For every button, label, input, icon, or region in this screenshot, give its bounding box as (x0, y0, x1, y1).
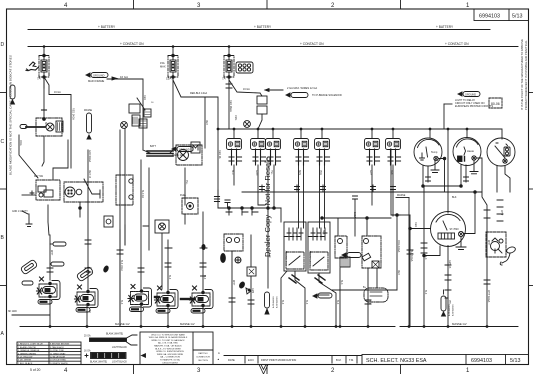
wires below switches (281, 271, 336, 327)
title box top right (474, 9, 529, 21)
svg-text:14 WHITE WHITE: 14 WHITE WHITE (50, 363, 68, 365)
sensor box (104, 216, 113, 227)
gauge G1 temp (414, 129, 446, 192)
svg-text:TAN: TAN (390, 170, 393, 175)
svg-text:TO P-BRAKE SOLENOID: TO P-BRAKE SOLENOID (312, 93, 342, 97)
svg-text:11 GRAY GRAY: 11 GRAY GRAY (50, 352, 66, 355)
svg-text:A CHASSIS: A CHASSIS (448, 304, 451, 316)
svg-text:5 LT. YELLOW: 5 LT. YELLOW (18, 357, 33, 359)
svg-text:CONNECTOR: CONNECTOR (196, 357, 210, 359)
svg-text:15A: 15A (160, 61, 165, 65)
masse label vertical (87, 113, 92, 139)
wire id labels (50, 115, 489, 313)
svg-text:10 PINK PINK: 10 PINK PINK (50, 350, 64, 352)
lamp L1 (37, 277, 61, 304)
gauge interlink wires (242, 129, 482, 213)
relay wire labels (340, 212, 413, 285)
svg-text:GROUND: GROUND (465, 93, 476, 96)
wire tach bottom-left (423, 246, 440, 257)
svg-text:BLANK (WHITE): BLANK (WHITE) (106, 333, 123, 336)
fuel float (500, 246, 516, 265)
connector 80-06 label (491, 102, 500, 106)
svg-text:T.M.: T.M. (349, 358, 354, 362)
oil switch cluster (244, 93, 267, 129)
svg-text:4 GREEN GREEN: 4 GREEN GREEN (18, 353, 36, 355)
B+ feed line (332, 289, 397, 291)
legend wire color table (17, 342, 81, 365)
svg-text:RED: RED (205, 120, 207, 125)
svg-text:BLK: BLK (305, 300, 307, 305)
svg-text:FUEL: FUEL (180, 194, 187, 197)
relay K2 (335, 236, 350, 267)
gauge G2 fuel (453, 129, 482, 192)
lamp L5 (190, 286, 214, 313)
svg-text:BLK: BLK (120, 300, 122, 305)
svg-text:5/13: 5/13 (512, 13, 523, 19)
masse line label (448, 304, 455, 316)
svg-text:BLANK (WHITE): BLANK (WHITE) (90, 361, 107, 364)
gauge G2 label Haute (467, 149, 474, 153)
svg-text:TO MAIN FR. 16 GA.: TO MAIN FR. 16 GA. (160, 359, 181, 362)
svg-text:+ BATTERY: + BATTERY (254, 25, 272, 29)
contact bus labels (120, 42, 469, 46)
svg-text:LIGHT BLACK: LIGHT BLACK (112, 346, 127, 349)
svg-text:7A: 7A (222, 77, 226, 81)
svg-text:D: D (1, 42, 5, 48)
svg-text:BLK: BLK (168, 275, 170, 280)
svg-text:GRN: GRN (251, 288, 253, 293)
svg-text:5 of 20: 5 of 20 (30, 368, 40, 372)
svg-text:WHT: WHT (487, 240, 489, 246)
connector P3 (266, 129, 281, 150)
lamp L2 (75, 285, 99, 312)
sheet arrow marker (259, 365, 268, 374)
wire tach left link (409, 227, 431, 230)
svg-text:BLK 16GA: BLK 16GA (410, 250, 413, 262)
connector P7 (386, 129, 401, 150)
svg-text:15A: 15A (166, 77, 171, 81)
svg-text:WIRE GA. GROUND WIRE: WIRE GA. GROUND WIRE (157, 353, 184, 356)
svg-text:80-06: 80-06 (491, 102, 500, 106)
gauge G3 hour (487, 138, 515, 166)
svg-text:9 TAN BLACK: 9 TAN BLACK (50, 346, 64, 349)
wire 16GA branch label (54, 91, 61, 94)
arrow label right (313, 293, 332, 298)
svg-text:6994103: 6994103 (471, 358, 492, 364)
svg-text:C: C (1, 139, 5, 145)
aux cluster right of lamps (221, 234, 256, 294)
fuse F2 value label 15A (166, 77, 171, 81)
lamp L3 (128, 285, 152, 312)
battery bus (28, 29, 490, 31)
svg-text:LIGHT BLACK: LIGHT BLACK (112, 361, 127, 364)
splice blob (103, 265, 109, 272)
wire labels left (19, 108, 91, 162)
svg-text:16 GA: 16 GA (120, 75, 128, 79)
wire RED label (143, 95, 146, 100)
lamp drops (141, 212, 207, 327)
ground label GND3 text (455, 93, 494, 108)
stop sol switch B (308, 222, 330, 283)
svg-text:16 GA: 16 GA (54, 91, 61, 94)
svg-text:2 BLANK (WHITE): 2 BLANK (WHITE) (18, 346, 36, 349)
fuse F3 7A (224, 47, 234, 79)
svg-text:BLK 16: BLK 16 (268, 250, 270, 258)
svg-text:RED 14GA: RED 14GA (72, 108, 75, 120)
svg-text:A CHASSIS: A CHASSIS (276, 296, 279, 308)
stop sol B label (310, 250, 312, 266)
svg-text:ORG 16GA: ORG 16GA (397, 240, 400, 253)
connector P4 (294, 129, 309, 150)
notes block (140, 332, 213, 365)
relay K3 (362, 236, 381, 268)
svg-text:FIRST PRINT MODIFICATION: FIRST PRINT MODIFICATION (261, 358, 296, 362)
svg-text:BLK: BLK (452, 196, 457, 199)
connector P2 (251, 129, 266, 150)
svg-text:6994103: 6994103 (479, 13, 500, 19)
ground label GND1 text (88, 73, 105, 83)
svg-text:WIRE CO. TO UNIT 16 GA BLACK: WIRE CO. TO UNIT 16 GA BLACK (151, 339, 185, 342)
svg-text:A CHASSIS: A CHASSIS (452, 304, 455, 316)
svg-text:WILD CO. TO WHOLE UNIT BASE: WILD CO. TO WHOLE UNIT BASE (151, 333, 185, 336)
svg-text:MASSE GV: MASSE GV (115, 322, 130, 326)
svg-text:WHT 16GA: WHT 16GA (487, 290, 490, 303)
svg-text:BLK: BLK (424, 255, 427, 260)
svg-text:+ BATTERY: + BATTERY (436, 25, 454, 29)
gauge G4 label ST-7820 (450, 228, 460, 231)
svg-text:RED: RED (414, 222, 417, 227)
svg-text:STOP SOL RLY: STOP SOL RLY (310, 250, 312, 266)
contact bus (28, 46, 518, 48)
wire inline connectors (47, 250, 490, 304)
svg-text:BLK: BLK (281, 300, 283, 305)
ground bus labels MASSE GV (115, 322, 467, 326)
fuse F3 value label 7A (222, 77, 226, 81)
svg-text:GRY: GRY (369, 170, 372, 176)
terminal pill B (50, 262, 64, 266)
svg-text:YEL: YEL (185, 180, 187, 185)
svg-text:▲: ▲ (217, 358, 220, 361)
fuse F2 15A (168, 47, 178, 79)
fuse F1 value label 7A (37, 77, 41, 81)
svg-text:BLK: BLK (336, 300, 338, 305)
svg-text:PART NO: PART NO (198, 352, 208, 355)
svg-text:BLK 16: BLK 16 (141, 190, 144, 199)
revision strip text (217, 351, 354, 362)
svg-text:WIRE CO. IDENTIFICATION: WIRE CO. IDENTIFICATION (156, 350, 184, 353)
title strip bottom (362, 355, 529, 365)
svg-text:MAX: MAX (160, 65, 166, 69)
svg-text:BATT: BATT (150, 145, 156, 148)
svg-text:ORG: ORG (19, 140, 22, 146)
legend gauge bars (84, 333, 127, 364)
fuel shutoff solenoid (182, 198, 198, 224)
wire 16GA label (120, 75, 128, 79)
svg-text:PRODUCT WHENEVER IT IS POSSIBL: PRODUCT WHENEVER IT IS POSSIBLE AND PRAC… (524, 40, 528, 110)
svg-text:BLK: BLK (44, 122, 47, 127)
connector 80-06 (489, 98, 502, 108)
NF GND label (8, 250, 123, 313)
connector P6 (365, 129, 380, 150)
wire tach right feed (464, 192, 476, 234)
fuel sender (486, 232, 506, 257)
ground label GND3 (458, 92, 480, 97)
svg-text:RED-BLK 14GA: RED-BLK 14GA (190, 92, 208, 95)
svg-text:MASSE GV: MASSE GV (452, 322, 467, 326)
svg-text:BLK: BLK (424, 290, 426, 295)
svg-text:8 BROWN BROWN: 8 BROWN BROWN (50, 344, 70, 346)
svg-text:13 VIOLET RED: 13 VIOLET RED (50, 360, 66, 362)
starter battery label (150, 145, 156, 148)
svg-text:2 GA MAX. WIRES 12 GA: 2 GA MAX. WIRES 12 GA (287, 86, 317, 90)
right column ticks (421, 200, 503, 298)
svg-text:GRN 16GA: GRN 16GA (88, 150, 91, 162)
relay K1 flasher (236, 62, 253, 73)
node bus dots (217, 128, 469, 131)
arrow label down1 (265, 292, 270, 314)
svg-text:RED 16GA: RED 16GA (229, 100, 232, 112)
terminal pill A (50, 242, 66, 246)
svg-text:+ CONTACT ON: + CONTACT ON (445, 42, 469, 46)
svg-text:A: A (218, 351, 220, 355)
svg-text:1 RED/LTS. LIGHT BLUE: 1 RED/LTS. LIGHT BLUE (18, 344, 43, 346)
svg-text:Haute: Haute (467, 149, 474, 153)
svg-text:RED: RED (397, 270, 399, 275)
B+ label (363, 286, 367, 289)
regulator box (116, 175, 133, 205)
svg-text:7A: 7A (37, 77, 41, 81)
svg-text:12 BLUE BLUE: 12 BLUE BLUE (50, 357, 66, 359)
svg-text:BLK 16GA: BLK 16GA (120, 260, 123, 271)
svg-text:16GA: 16GA (353, 212, 356, 219)
gauge feed bus (218, 104, 502, 139)
ground label GND1 (86, 73, 108, 78)
gauge G4 tach (431, 212, 467, 250)
relay wires (321, 149, 410, 327)
right margin note (520, 39, 528, 110)
svg-text:+ BATTERY: + BATTERY (98, 25, 116, 29)
ground label GND4 text (172, 148, 190, 157)
svg-text:BLK: BLK (340, 280, 343, 285)
svg-text:EUROPEAN PRINTED CIRCUITS: EUROPEAN PRINTED CIRCUITS (455, 105, 494, 108)
wire fuse3 drop (226, 77, 260, 129)
gauge G1 label Temp (431, 150, 438, 154)
svg-text:KEY SW: KEY SW (34, 176, 44, 178)
top title box text (479, 13, 523, 19)
alternator cluster (120, 104, 140, 327)
wire labels fuse3 (229, 88, 250, 112)
legend gauge bars (85, 335, 137, 359)
ignition switch S1 (30, 180, 60, 200)
svg-text:GROUND: GROUND (93, 73, 105, 77)
oil pressure sender label 16 (151, 102, 154, 104)
chassis node B labels (18, 344, 70, 365)
arrow label down2 (441, 290, 446, 316)
key switch icon (26, 62, 39, 71)
link y208 (215, 190, 282, 222)
svg-text:B.M.: B.M. (336, 358, 342, 362)
svg-text:3 ORANGE ORANGE: 3 ORANGE ORANGE (18, 349, 40, 352)
tilted switch S3 (76, 266, 94, 282)
svg-text:DATE: DATE (228, 358, 235, 362)
ground label GND2 (265, 89, 308, 98)
svg-text:GRN: GRN (255, 170, 258, 176)
svg-text:16 GA: 16 GA (84, 350, 91, 353)
connector P5 (315, 129, 330, 150)
svg-text:5/13: 5/13 (510, 358, 521, 364)
svg-text:ORG: ORG (234, 115, 236, 120)
svg-text:RED: RED (143, 95, 146, 100)
wire drops from plugs (229, 149, 401, 228)
svg-text:WHT: WHT (500, 210, 503, 216)
lamp link bars (155, 297, 194, 299)
ground label GND4 (172, 147, 193, 152)
chassis node A labels (272, 296, 279, 308)
right column wire labels (414, 210, 503, 305)
svg-text:PNK: PNK (319, 170, 322, 175)
stop sol switch A (284, 222, 306, 283)
fuse F1 7A (39, 47, 49, 79)
bottom rounded module (364, 288, 388, 302)
wire color labels plugs (231, 170, 393, 235)
left margin note (9, 55, 13, 175)
ground label GND2 text (287, 86, 342, 97)
wire fuse1 drop (19, 77, 91, 290)
ignition switch labels (12, 176, 44, 213)
battery bus labels (98, 25, 454, 29)
ground sym left (22, 211, 32, 227)
svg-text:WILD GA. WIRE IS 16 GA BROWN-B: WILD GA. WIRE IS 16 GA BROWN-BLK (149, 336, 188, 339)
svg-text:A CHASSIS: A CHASSIS (272, 296, 275, 308)
svg-text:6 DK. WHITE: 6 DK. WHITE (18, 360, 32, 362)
masse label relay (342, 253, 361, 258)
svg-text:SECTION: SECTION (198, 360, 208, 362)
svg-text:IT IS THE POLICY OF THE MANUFA: IT IS THE POLICY OF THE MANUFACTURER TO … (520, 39, 524, 110)
lamp L4 (155, 286, 179, 313)
svg-text:BLK: BLK (203, 275, 205, 280)
connector P1 (227, 129, 242, 150)
fuel solenoid label (180, 194, 187, 197)
left margin arrow label (10, 85, 15, 104)
svg-text:RED 16: RED 16 (218, 150, 221, 159)
svg-text:STOP SOL RLY: STOP SOL RLY (286, 250, 288, 266)
wire 16GA run (107, 77, 143, 150)
svg-text:ST-7820: ST-7820 (450, 228, 460, 231)
starter motor M (147, 142, 202, 165)
svg-text:ECN: ECN (248, 358, 254, 362)
node ground dots (49, 325, 489, 328)
svg-text:BLK: BLK (368, 300, 370, 305)
svg-text:+ CONTACT ON: + CONTACT ON (300, 42, 324, 46)
svg-text:16 GA: 16 GA (243, 88, 250, 91)
svg-text:NF GND: NF GND (8, 311, 17, 313)
svg-text:BLK.S - TO WHOLE WIRE: BLK.S - TO WHOLE WIRE (155, 348, 181, 350)
ground bus (20, 326, 518, 328)
wire gauge drops (409, 160, 510, 327)
aux wires (232, 165, 268, 327)
pill label (22, 281, 33, 285)
svg-text:GRN 16: GRN 16 (448, 260, 450, 269)
svg-text:MASSE: MASSE (397, 194, 406, 197)
svg-text:RED 16: RED 16 (88, 170, 90, 179)
starter solenoid (22, 179, 103, 235)
left low wires (12, 225, 125, 327)
svg-text:WHT: WHT (50, 250, 52, 256)
revision strip (224, 356, 362, 364)
node contact taps (43, 45, 231, 48)
svg-text:GA. - CONNECTION: GA. - CONNECTION (160, 356, 180, 359)
svg-text:+ CONTACT ON: + CONTACT ON (120, 42, 144, 46)
bottom title text (366, 358, 521, 364)
chassis connector (20, 118, 63, 136)
starter wire labels (141, 92, 221, 199)
svg-text:BLU: BLU (231, 170, 234, 175)
oil pressure sender (137, 98, 151, 128)
svg-text:BLADE MODIFICATION IS NOT THE: BLADE MODIFICATION IS NOT THE SPECIAL CA… (9, 55, 13, 175)
svg-text:ALL LTS. 8 GA. RED: ALL LTS. 8 GA. RED (158, 342, 178, 345)
svg-text:MASSE GV: MASSE GV (180, 322, 195, 326)
glow plug box (143, 220, 169, 289)
wires to starter (141, 77, 218, 289)
svg-text:20 GA: 20 GA (84, 335, 91, 338)
tilted switch S2 (20, 259, 38, 275)
svg-text:CIRCUIT IDENT: CIRCUIT IDENT (162, 362, 178, 364)
svg-text:SCH. ELECT. NG33 ESA: SCH. ELECT. NG33 ESA (366, 358, 427, 364)
fuse F2 rating note (160, 61, 166, 69)
legend gauge bar labels (84, 109, 93, 112)
svg-text:BRN: BRN (298, 170, 301, 175)
svg-text:MAIN FRAME: MAIN FRAME (88, 79, 105, 83)
watermark (263, 157, 272, 257)
svg-text:MAIN FR. 8 GA. " AT BLACK: MAIN FR. 8 GA. " AT BLACK (154, 345, 182, 348)
svg-text:Temp: Temp (431, 150, 438, 154)
svg-text:Dealer Copy -- Not for Resale: Dealer Copy -- Not for Resale (263, 157, 272, 257)
svg-text:MASSE: MASSE (84, 109, 93, 112)
svg-text:PPL: PPL (448, 300, 451, 305)
svg-text:WHT: WHT (232, 280, 234, 286)
svg-text:7 BLK. BLACK: 7 BLK. BLACK (18, 362, 33, 365)
masse label text (397, 194, 457, 199)
notes block text (149, 333, 211, 364)
stop sol A label (286, 250, 288, 266)
